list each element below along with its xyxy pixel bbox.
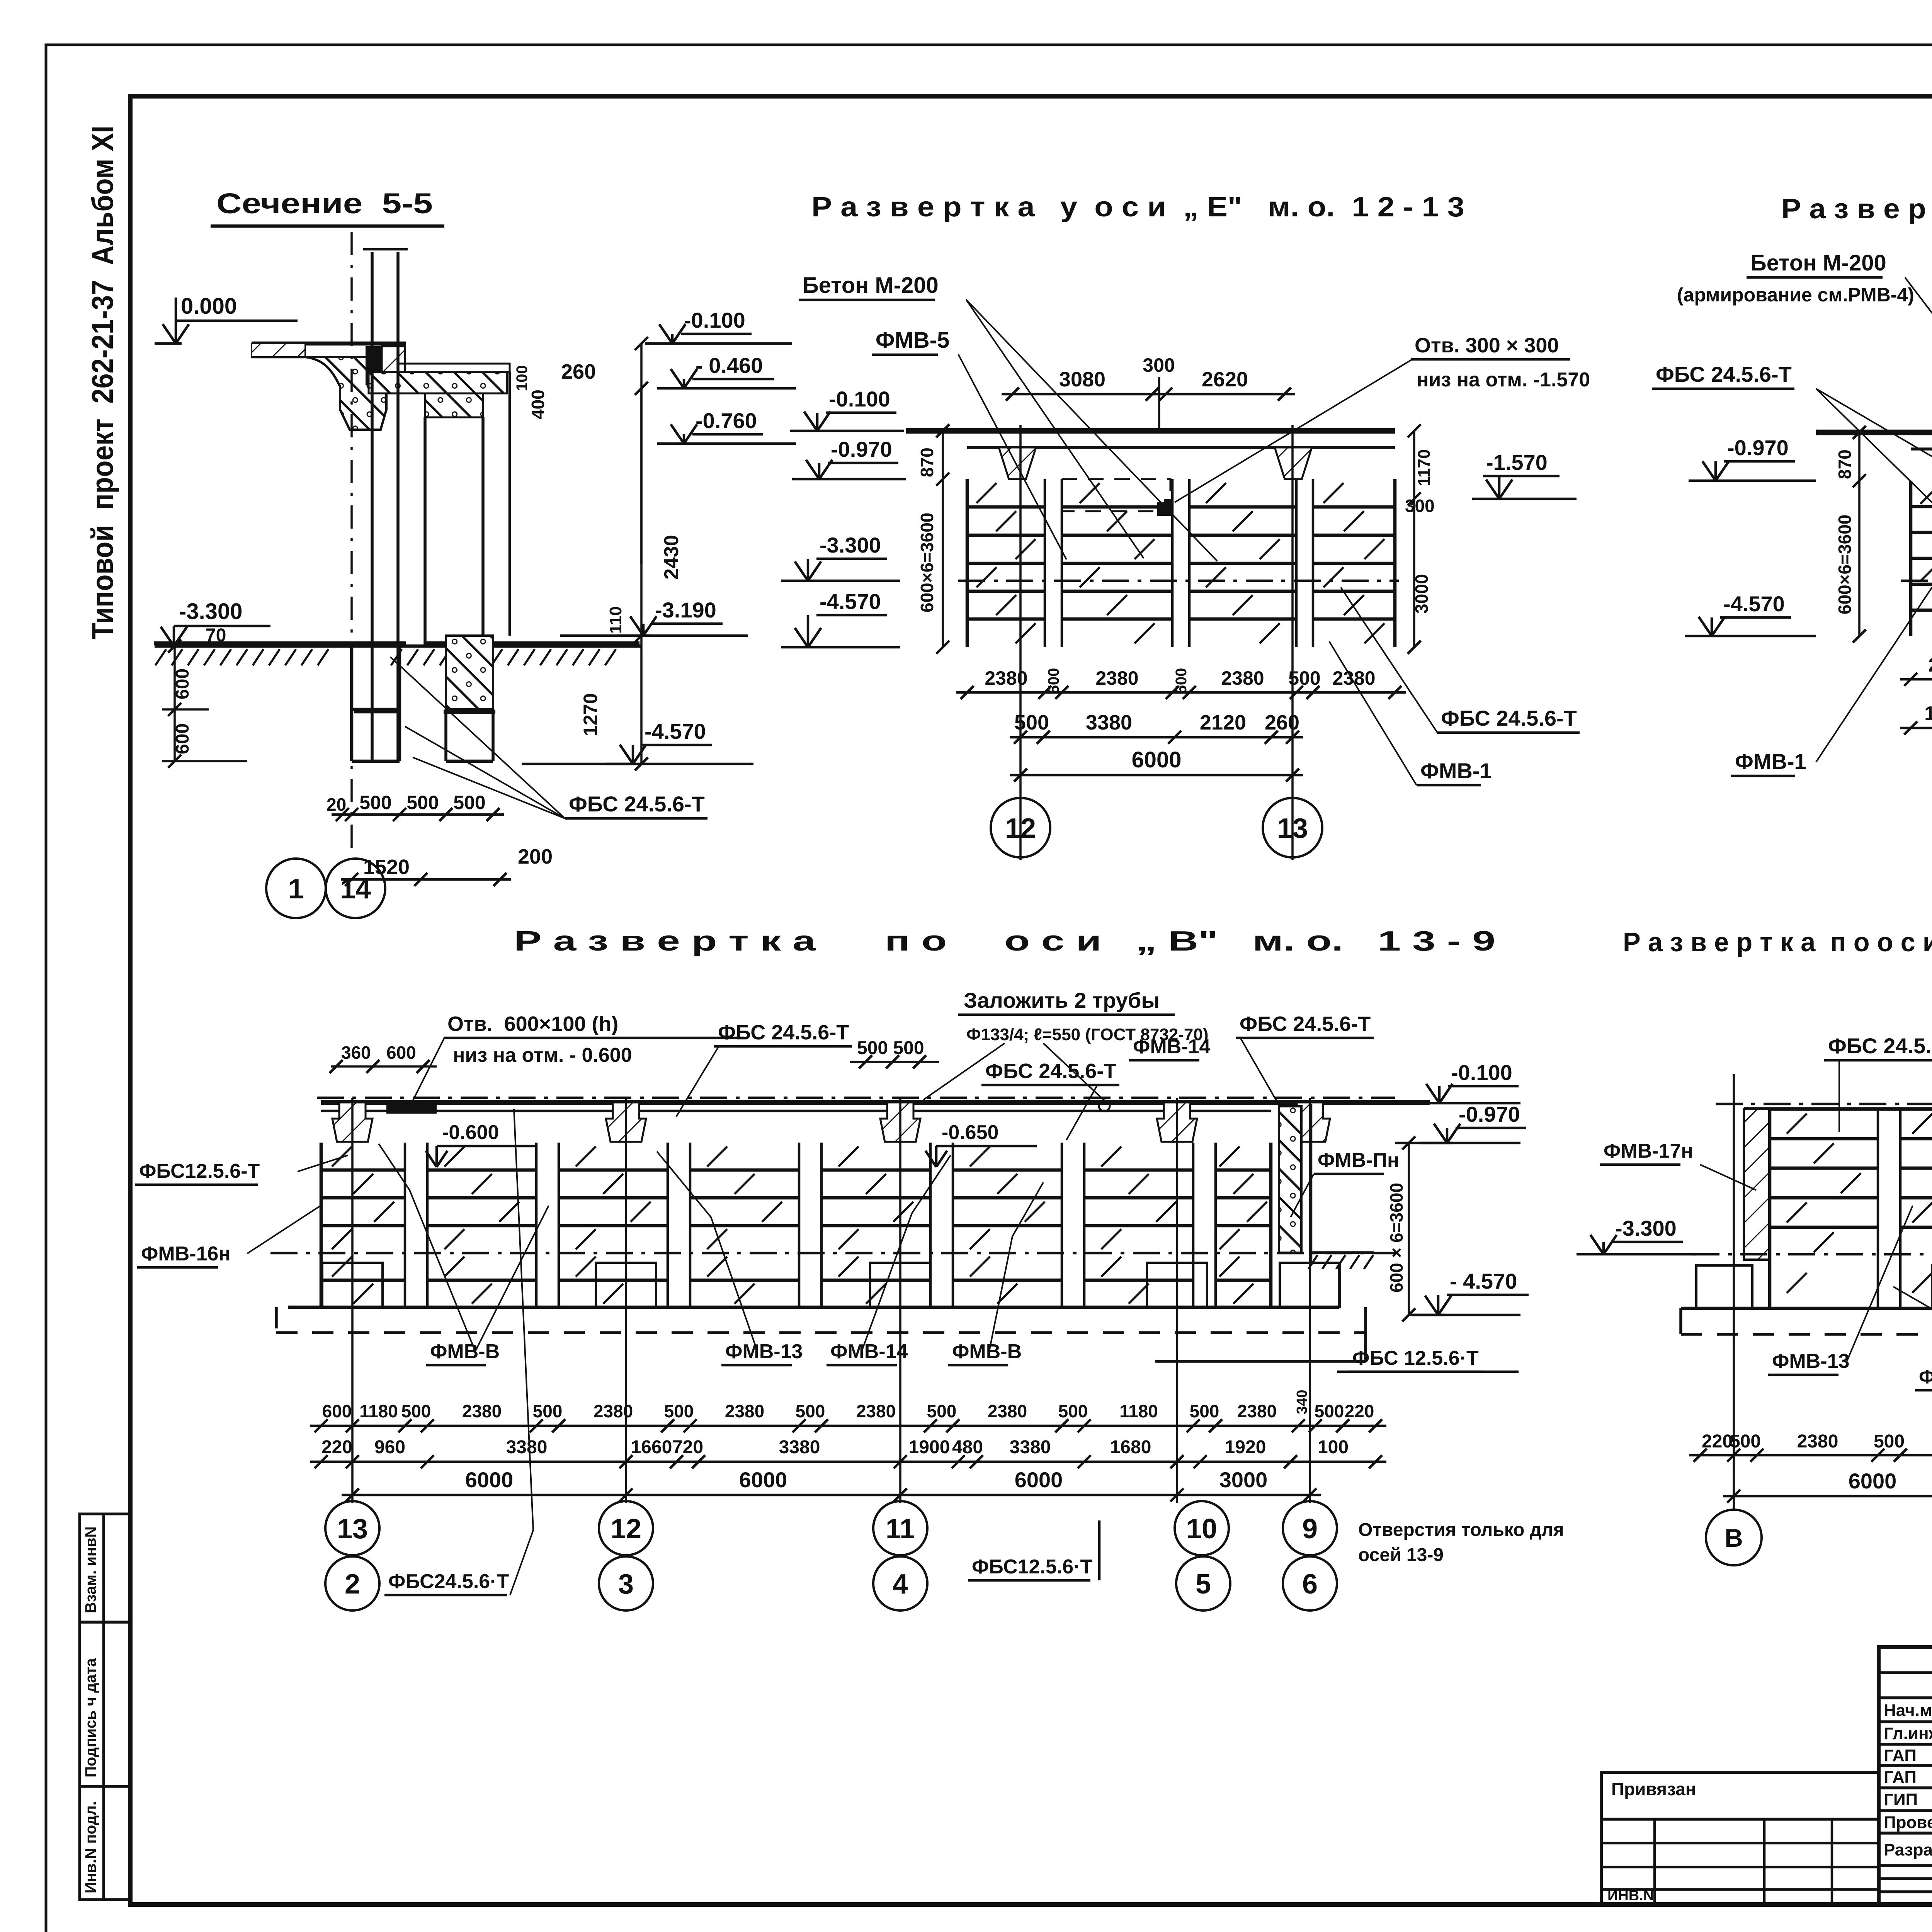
svg-text:2380: 2380 [985, 667, 1027, 689]
svg-text:ФБС 24.5.6-Т: ФБС 24.5.6-Т [569, 792, 705, 816]
svg-text:-0.970: -0.970 [831, 437, 892, 461]
svg-text:600×6=3600: 600×6=3600 [1835, 515, 1855, 614]
svg-text:3080: 3080 [1059, 368, 1105, 391]
slab downstand at axis 13 [1275, 447, 1312, 479]
dim row3 v4 6000s [342, 1494, 1321, 1497]
svg-text:ФБС 24.5.6-Т: ФБС 24.5.6-Т [1656, 362, 1792, 386]
svg-text:340: 340 [1294, 1390, 1310, 1414]
svg-text:500: 500 [533, 1401, 563, 1421]
svg-text:6000: 6000 [1015, 1468, 1063, 1492]
svg-text:Взам. инвN: Взам. инвN [82, 1526, 99, 1613]
svg-text:3380: 3380 [1010, 1437, 1051, 1458]
svg-text:500: 500 [1045, 668, 1062, 694]
svg-text:ФБС12.5.6·Т: ФБС12.5.6·Т [972, 1556, 1093, 1578]
svg-text:ФБС 24.5.6-Т: ФБС 24.5.6-Т [1441, 706, 1577, 730]
svg-text:13: 13 [1277, 813, 1308, 844]
svg-text:ФМВ-5: ФМВ-5 [876, 328, 949, 353]
svg-text:ФМВ-В: ФМВ-В [952, 1340, 1022, 1363]
svg-text:2380: 2380 [594, 1401, 633, 1421]
footing plinth at 2330 [870, 1263, 930, 1307]
svg-text:ФМВ-1: ФМВ-1 [1420, 759, 1492, 783]
svg-text:6: 6 [1302, 1569, 1318, 1600]
svg-text:2: 2 [345, 1569, 360, 1600]
title block outer [1879, 1647, 1932, 1905]
svg-text:-1.570: -1.570 [1486, 450, 1548, 474]
svg-text:ФМВ-1: ФМВ-1 [1735, 749, 1806, 774]
dim row1 v2 [956, 691, 1406, 694]
svg-text:-3.300: -3.300 [1615, 1216, 1677, 1240]
axis circle 4 [873, 1556, 927, 1611]
svg-text:260: 260 [561, 360, 596, 383]
left hatched pier FMV-17n [1744, 1109, 1770, 1260]
svg-text:220: 220 [1702, 1431, 1733, 1452]
svg-text:Бетон М-200: Бетон М-200 [1750, 250, 1886, 276]
svg-text:500 500: 500 500 [857, 1038, 924, 1058]
axis circle 14 [326, 859, 385, 918]
svg-text:500: 500 [1058, 1401, 1088, 1421]
lower blocks v4 [321, 1279, 405, 1282]
svg-text:500: 500 [1190, 1401, 1219, 1421]
svg-text:-0.100: -0.100 [684, 308, 745, 332]
svg-text:500: 500 [664, 1401, 694, 1421]
svg-text:Отв. 600×100 (h): Отв. 600×100 (h) [447, 1012, 618, 1036]
svg-text:1180: 1180 [359, 1401, 398, 1421]
footing slab [288, 1306, 1339, 1309]
axis circle 12 [625, 1098, 627, 1503]
mid dash-dot v3 [1901, 580, 1932, 582]
svg-text:2620: 2620 [1202, 368, 1248, 391]
svg-text:-0.970: -0.970 [1727, 435, 1789, 460]
axis circle 12 [991, 798, 1050, 857]
right end hatched monolith strip [1279, 1106, 1301, 1253]
svg-text:-0.650: -0.650 [942, 1121, 998, 1144]
svg-text:6000: 6000 [465, 1468, 514, 1492]
svg-text:В: В [1725, 1524, 1743, 1552]
svg-text:2380: 2380 [1797, 1431, 1838, 1452]
svg-text:-0.970: -0.970 [1459, 1102, 1520, 1126]
svg-text:2380: 2380 [988, 1401, 1027, 1421]
wall blocks 8-9 [1911, 505, 1932, 509]
svg-text:Заложить 2 трубы: Заложить 2 трубы [964, 988, 1160, 1012]
svg-text:3000: 3000 [1219, 1468, 1268, 1492]
svg-text:11: 11 [886, 1514, 915, 1544]
svg-text:500: 500 [359, 792, 391, 813]
svg-text:2380: 2380 [462, 1401, 502, 1421]
svg-text:500: 500 [1315, 1401, 1344, 1421]
top anchor at axis 1620 [606, 1102, 646, 1142]
svg-text:1680: 1680 [1110, 1437, 1151, 1458]
ground line [155, 645, 641, 648]
svg-text:500: 500 [927, 1401, 957, 1421]
svg-text:13: 13 [337, 1514, 368, 1544]
footing plinth at 3390 [1280, 1263, 1340, 1307]
svg-text:6000: 6000 [1849, 1469, 1897, 1493]
axis circle 1 [266, 859, 326, 918]
footing plinth at 1620 [596, 1263, 656, 1307]
svg-text:0.000: 0.000 [181, 294, 237, 319]
svg-text:ФБС12.5.6т: ФБС12.5.6т [1919, 1366, 1932, 1388]
svg-text:ФБС 24.5.6-Т: ФБС 24.5.6-Т [1240, 1012, 1371, 1036]
svg-text:ГАП: ГАП [1884, 1746, 1917, 1765]
svg-text:6000: 6000 [1131, 747, 1181, 772]
svg-text:-4.570: -4.570 [820, 589, 881, 614]
axis circle 10 [1176, 1098, 1178, 1503]
svg-text:ФБС 24.5.6-Т: ФБС 24.5.6-Т [1828, 1034, 1932, 1058]
svg-text:низ на отм. -1.570: низ на отм. -1.570 [1417, 369, 1590, 391]
svg-text:500: 500 [453, 792, 485, 813]
wall blocks [967, 505, 1045, 509]
svg-text:Провер.: Провер. [1884, 1813, 1932, 1832]
svg-text:3380: 3380 [506, 1437, 548, 1458]
svg-text:1660: 1660 [631, 1437, 672, 1458]
svg-text:400: 400 [528, 389, 548, 419]
dim row1 v3 [1900, 678, 1932, 681]
wall blocks v5 [1770, 1137, 1878, 1141]
svg-text:- 4.570: - 4.570 [1450, 1269, 1517, 1293]
svg-text:-4.570: -4.570 [1723, 592, 1785, 616]
svg-text:2120: 2120 [1200, 711, 1246, 734]
svg-text:1180: 1180 [1119, 1401, 1158, 1421]
mid dash-dot v4 [270, 1252, 1395, 1255]
svg-text:1900: 1900 [909, 1437, 950, 1458]
mid dash-dot v5 [1692, 1253, 1932, 1256]
axis circle 5 [1176, 1556, 1230, 1611]
dashed footing outline [276, 1331, 1366, 1334]
svg-text:500: 500 [401, 1401, 431, 1421]
footing plinth at 912 [322, 1263, 383, 1307]
column above floor [371, 252, 374, 344]
svg-text:360: 360 [341, 1043, 371, 1063]
svg-text:ФБС24.5.6·Т: ФБС24.5.6·Т [388, 1570, 509, 1593]
svg-text:2380: 2380 [1237, 1401, 1277, 1421]
svg-text:-0.600: -0.600 [442, 1121, 499, 1144]
svg-text:Р а з в е р т к а п о: Р а з в е р т к а п о о с и „ В" м. о. 1… [514, 926, 1495, 957]
svg-text:960: 960 [374, 1437, 405, 1458]
svg-text:ФМВ-Пн: ФМВ-Пн [1318, 1149, 1399, 1172]
svg-text:Р а з в е р т к а п о о с и „: Р а з в е р т к а п о о с и „ 9" ( б ) м… [1623, 927, 1932, 957]
axis circle 13 [1263, 798, 1322, 857]
top anchor at axis 2330 [880, 1102, 920, 1142]
svg-text:600: 600 [386, 1043, 416, 1063]
svg-text:14: 14 [340, 874, 371, 905]
axis circle 2 [325, 1556, 379, 1611]
axis line 12 [1019, 425, 1022, 860]
svg-text:260: 260 [1265, 711, 1299, 734]
svg-text:1: 1 [288, 874, 304, 905]
svg-text:ФМВ-13: ФМВ-13 [725, 1340, 803, 1363]
slab downstand at axis 12 [999, 447, 1036, 479]
svg-text:Р а з в е р т к а у о с и: Р а з в е р т к а у о с и „ Е" м. о. 1 2… [811, 192, 1464, 223]
svg-text:110: 110 [606, 606, 625, 634]
svg-text:ФБС12.5.6-Т: ФБС12.5.6-Т [139, 1160, 260, 1182]
axis circle 13 [351, 1098, 354, 1503]
slab top line [906, 428, 1395, 434]
svg-text:600: 600 [322, 1401, 352, 1421]
svg-text:ГАП: ГАП [1884, 1768, 1917, 1787]
top dash-dot v5 [1716, 1103, 1932, 1105]
svg-text:низ на отм. - 0.600: низ на отм. - 0.600 [453, 1044, 632, 1066]
dim row2 v3 [1900, 727, 1932, 730]
dim row2 v4 [310, 1461, 1386, 1463]
svg-text:10: 10 [1186, 1514, 1217, 1544]
svg-text:300: 300 [1143, 354, 1175, 376]
svg-text:500: 500 [1288, 667, 1320, 689]
svg-text:-4.570: -4.570 [645, 719, 706, 743]
top anchor at axis 3390 [1290, 1102, 1330, 1142]
basement wall lines [371, 344, 374, 761]
right slab [398, 364, 510, 372]
svg-text:Бетон М-200: Бетон М-200 [803, 273, 939, 298]
footing slab v5 [1681, 1307, 1932, 1310]
privyazan box [1601, 1772, 1879, 1905]
dim row v5 [1689, 1454, 1932, 1457]
hatched foundation column [446, 636, 493, 709]
svg-text:Отв. 300 × 300: Отв. 300 × 300 [1415, 334, 1559, 357]
svg-text:ФМВ-16н: ФМВ-16н [141, 1243, 231, 1265]
top anchor at axis 3046 [1157, 1102, 1197, 1142]
axis circle 11 [899, 1098, 901, 1503]
ground hatch right of wall [1312, 1251, 1374, 1254]
svg-text:5: 5 [1196, 1569, 1211, 1600]
svg-text:3380: 3380 [1086, 711, 1132, 734]
svg-text:-0.760: -0.760 [696, 408, 757, 433]
svg-text:Типовой проект 262-21-37 Ал: Типовой проект 262-21-37 Альбом XI [85, 126, 119, 639]
svg-text:ФМВ-14: ФМВ-14 [830, 1340, 908, 1363]
svg-text:ФМВ-17н: ФМВ-17н [1604, 1140, 1693, 1162]
svg-text:осей 13-9: осей 13-9 [1358, 1545, 1444, 1565]
axis line 14 [350, 232, 353, 856]
floor slab left [252, 342, 406, 346]
dim row2 v2 [1010, 736, 1303, 739]
dashed opening [1062, 479, 1170, 511]
svg-text:ФБС 24.5.6-Т: ФБС 24.5.6-Т [985, 1060, 1116, 1083]
svg-text:-0.100: -0.100 [829, 387, 890, 411]
wall top v5 [1744, 1107, 1932, 1111]
svg-text:-3.300: -3.300 [179, 599, 242, 624]
dim row1 v4 [310, 1425, 1386, 1427]
svg-text:2430: 2430 [660, 535, 683, 580]
svg-text:870: 870 [1835, 449, 1855, 479]
svg-text:2380: 2380 [1095, 667, 1138, 689]
svg-text:720: 720 [672, 1437, 703, 1458]
svg-text:4: 4 [893, 1569, 908, 1600]
pipe symbol [1099, 1100, 1110, 1111]
svg-text:- 0.460: - 0.460 [696, 353, 763, 378]
axis line V [1733, 1074, 1735, 1509]
svg-text:220: 220 [321, 1437, 352, 1458]
mid dash-dot level line [958, 580, 1399, 582]
lower blocks v5 [1768, 1257, 1772, 1308]
otv 600x100 notch [386, 1104, 437, 1114]
svg-text:ФМВ-13: ФМВ-13 [1772, 1350, 1849, 1372]
svg-text:Подпись ч дата: Подпись ч дата [82, 1658, 99, 1777]
slab top line v3 [1816, 430, 1932, 435]
svg-text:2380: 2380 [1221, 667, 1264, 689]
svg-text:3: 3 [618, 1569, 634, 1600]
svg-text:1560: 1560 [1924, 702, 1932, 725]
sealing blob [366, 346, 382, 385]
svg-text:2380: 2380 [1928, 654, 1932, 676]
svg-text:480: 480 [952, 1437, 983, 1458]
step detail otv 300x300 [1157, 499, 1172, 516]
svg-text:Гл.инж.м.: Гл.инж.м. [1884, 1724, 1932, 1743]
svg-text:Нач.моа: Нач.моа [1884, 1701, 1932, 1720]
svg-text:Отверстия только для: Отверстия только для [1358, 1520, 1564, 1540]
svg-text:3380: 3380 [779, 1437, 820, 1458]
axis circle 9 [1309, 1098, 1311, 1503]
svg-text:9: 9 [1302, 1514, 1318, 1544]
svg-text:-3.190: -3.190 [655, 598, 716, 622]
axis circle V [1706, 1510, 1762, 1565]
svg-text:220: 220 [1345, 1401, 1374, 1421]
top anchor at axis 912 [332, 1102, 372, 1142]
axis circle 3 [599, 1556, 653, 1611]
svg-text:500: 500 [1014, 711, 1049, 734]
svg-text:Привязан: Привязан [1611, 1779, 1696, 1799]
dim row3 6000 [1010, 774, 1303, 777]
svg-text:Р а з в е р т к а у о с и „: Р а з в е р т к а у о с и „ Е" м. о. 8 -… [1781, 194, 1932, 224]
staff table rows [1879, 1671, 1932, 1674]
top dash-dot axis line [317, 1097, 1395, 1099]
svg-text:ИНВ.N: ИНВ.N [1607, 1888, 1654, 1904]
svg-text:2380: 2380 [725, 1401, 764, 1421]
dim 6000 v5 [1723, 1495, 1932, 1498]
svg-text:20: 20 [327, 794, 346, 815]
svg-text:200: 200 [518, 845, 553, 868]
svg-text:500: 500 [1173, 668, 1190, 694]
svg-text:1170: 1170 [1415, 449, 1434, 486]
svg-text:6000: 6000 [739, 1468, 787, 1492]
svg-text:ГИП: ГИП [1884, 1790, 1918, 1809]
haunch beam hatched [305, 357, 386, 430]
svg-text:ФМВ-В: ФМВ-В [430, 1340, 500, 1363]
svg-text:Инв.N подл.: Инв.N подл. [82, 1801, 99, 1893]
axis circle 6 [1283, 1556, 1337, 1611]
svg-text:2380: 2380 [1332, 667, 1375, 689]
svg-text:Сечение 5-5: Сечение 5-5 [216, 187, 433, 219]
svg-text:1270: 1270 [580, 693, 601, 736]
svg-text:2380: 2380 [856, 1401, 896, 1421]
svg-text:Разраб: Разраб [1884, 1840, 1932, 1859]
svg-text:600 × 6=3600: 600 × 6=3600 [1386, 1183, 1406, 1293]
left stamp boxes [80, 1514, 130, 1900]
wall top slab line [321, 1100, 1430, 1105]
svg-text:300: 300 [1405, 496, 1435, 516]
svg-text:12: 12 [611, 1514, 641, 1544]
plinth under right strip [1310, 1263, 1339, 1307]
svg-text:870: 870 [917, 447, 937, 477]
right footing deeper outline [1155, 1360, 1366, 1363]
svg-text:1920: 1920 [1225, 1437, 1266, 1458]
svg-text:ФБС 12.5.6·Т: ФБС 12.5.6·Т [1352, 1347, 1479, 1369]
svg-text:500: 500 [1730, 1431, 1761, 1452]
svg-text:100: 100 [514, 365, 531, 391]
axis line 13 [1291, 425, 1294, 860]
wall blocks v4 [321, 1168, 405, 1172]
svg-text:-3.300: -3.300 [820, 533, 881, 557]
svg-text:500: 500 [406, 792, 439, 813]
svg-text:600×6=3600: 600×6=3600 [917, 513, 937, 612]
footing plinths v5 [1696, 1265, 1752, 1308]
svg-text:12: 12 [1005, 813, 1036, 844]
svg-text:-0.100: -0.100 [1451, 1060, 1512, 1085]
svg-text:500: 500 [1874, 1431, 1905, 1452]
svg-text:ФБС 24.5.6-Т: ФБС 24.5.6-Т [718, 1021, 849, 1044]
svg-text:100: 100 [1318, 1437, 1349, 1458]
svg-text:(армирование см.РМВ-4): (армирование см.РМВ-4) [1677, 284, 1914, 306]
footing plinth at 3046 [1147, 1263, 1207, 1307]
left foundation blocks [350, 646, 354, 761]
svg-text:ФМВ-14: ФМВ-14 [1133, 1036, 1210, 1058]
svg-text:70: 70 [206, 625, 226, 646]
svg-text:500: 500 [796, 1401, 825, 1421]
dims 1520 200 [341, 878, 511, 881]
